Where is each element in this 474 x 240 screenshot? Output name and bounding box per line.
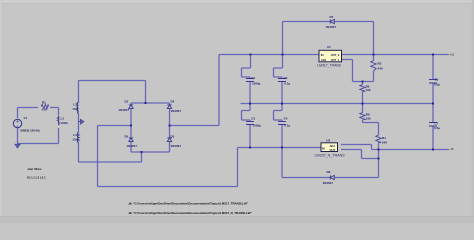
svg-text:10k: 10k [366, 117, 371, 121]
svg-text:OUT: OUT [330, 148, 336, 152]
svg-text:R4: R4 [382, 136, 386, 140]
svg-text:0.5µ: 0.5µ [434, 82, 440, 86]
svg-text:0.5µ: 0.5µ [434, 126, 440, 130]
svg-text:L3: L3 [73, 133, 77, 137]
svg-text:.lib "C:\Users\vstliger\OneDri: .lib "C:\Users\vstliger\OneDrive\Documen… [128, 211, 252, 215]
svg-text:L1: L1 [73, 102, 77, 106]
svg-text:R3: R3 [378, 62, 382, 66]
svg-text:.tran 50ms: .tran 50ms [27, 167, 42, 171]
svg-text:L2: L2 [61, 116, 65, 120]
svg-text:D3: D3 [171, 135, 175, 139]
svg-text:0.05: 0.05 [42, 107, 48, 111]
svg-text:LM337_N_TRANS: LM337_N_TRANS [315, 153, 346, 157]
svg-text:1N4007: 1N4007 [171, 144, 182, 148]
svg-text:1N4007: 1N4007 [127, 144, 138, 148]
svg-text:1N4007: 1N4007 [323, 181, 334, 185]
svg-text:240: 240 [378, 66, 383, 70]
svg-text:1N4007: 1N4007 [171, 109, 182, 113]
svg-text:C1: C1 [251, 76, 255, 80]
svg-text:1000µ: 1000µ [253, 123, 262, 127]
svg-text:D7: D7 [330, 15, 334, 19]
svg-text:SINE(0 120 60): SINE(0 120 60) [20, 129, 39, 133]
svg-text:10k: 10k [366, 88, 371, 92]
svg-text:IN: IN [321, 53, 324, 57]
svg-text:0.1µ: 0.1µ [284, 81, 290, 85]
svg-text:OUT_0: OUT_0 [331, 53, 340, 57]
svg-text:C2: C2 [284, 76, 288, 80]
svg-text:U1: U1 [327, 45, 331, 49]
svg-text:V1: V1 [24, 116, 28, 120]
svg-text:R1: R1 [42, 100, 46, 104]
svg-text:100m: 100m [61, 121, 69, 125]
svg-text:C4: C4 [284, 117, 288, 121]
svg-text:ADJ: ADJ [321, 58, 327, 62]
svg-text:K1 L1 L2 L3 1: K1 L1 L2 L3 1 [27, 175, 46, 179]
svg-text:.lib "C:\Users\vstliger\OneDri: .lib "C:\Users\vstliger\OneDrive\Documen… [128, 202, 249, 206]
svg-text:+15: +15 [450, 53, 455, 57]
svg-text:OUT_1: OUT_1 [331, 58, 340, 62]
svg-text:-15: -15 [450, 147, 454, 151]
svg-text:D1: D1 [125, 100, 129, 104]
svg-text:LM317_TRANS: LM317_TRANS [317, 63, 341, 67]
svg-text:C7: C7 [435, 121, 439, 125]
svg-text:1N4007: 1N4007 [119, 108, 130, 112]
svg-text:240: 240 [382, 141, 387, 145]
svg-text:1N4007: 1N4007 [326, 25, 337, 29]
svg-text:0.1µ: 0.1µ [284, 123, 290, 127]
svg-text:C5: C5 [435, 78, 439, 82]
svg-text:1000µ: 1000µ [252, 81, 261, 85]
svg-text:C3: C3 [251, 117, 255, 121]
svg-text:D8: D8 [327, 170, 331, 174]
svg-text:IN: IN [322, 147, 325, 151]
svg-text:D4: D4 [171, 100, 175, 104]
svg-text:15m: 15m [72, 107, 78, 111]
svg-text:D2: D2 [125, 135, 129, 139]
svg-text:U2: U2 [326, 138, 330, 142]
svg-text:15m: 15m [72, 137, 78, 141]
